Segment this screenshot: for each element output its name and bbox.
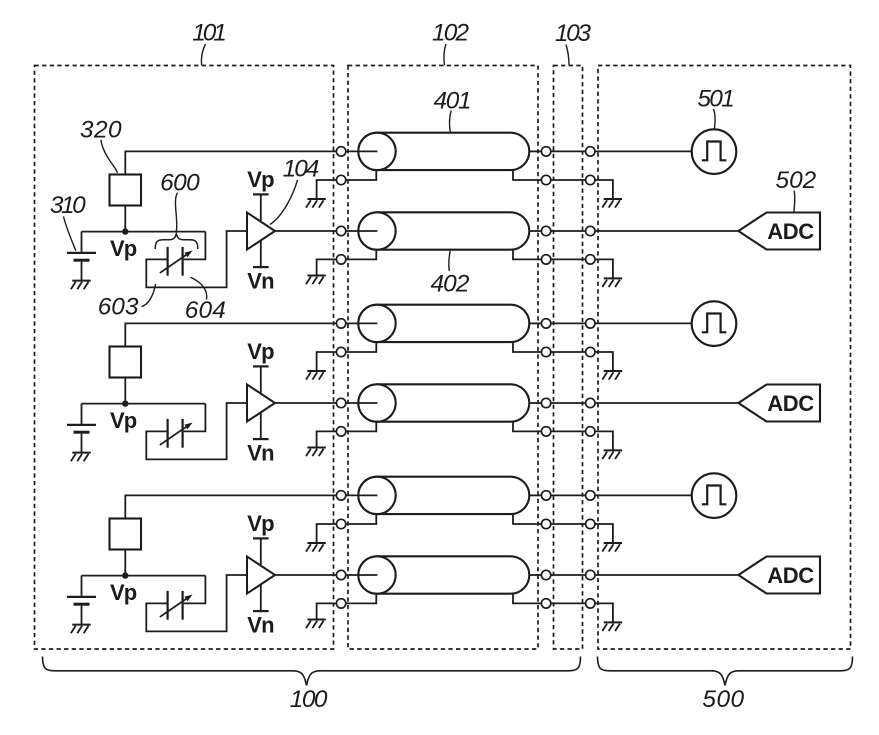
- wire connector link shield (row 2): [551, 258, 586, 260]
- wire shield to ground right (row 1): [595, 180, 613, 199]
- wire shield right (row 3): [513, 342, 541, 352]
- wire op-amp output (block 1): [275, 230, 337, 232]
- svg-text:104: 104: [283, 155, 319, 182]
- wire capacitor left plate loop to op-amp input (block 3): [146, 575, 247, 631]
- terminal circle left shield (row 1): [336, 175, 345, 184]
- wire Vp rail (block 1): [82, 231, 206, 233]
- wire box bottom to Vp node (block 2): [124, 378, 126, 404]
- op-amp Vp supply stem (block 1): [260, 194, 262, 222]
- brace 500 (span of measurement block): [598, 657, 853, 686]
- wire connector link shield (row 6): [551, 602, 586, 604]
- leader 101: [201, 44, 205, 65]
- transmission line row 5 left end circle: [358, 477, 395, 514]
- svg-text:Vn: Vn: [247, 269, 274, 294]
- capacitor right plate (block 3): [182, 591, 184, 620]
- svg-text:320: 320: [80, 116, 122, 143]
- op-amp Vn supply stem (block 3): [260, 584, 262, 611]
- wire connector link shield (row 4): [551, 430, 586, 432]
- pulse generator pulse generator row 5 circle: [692, 473, 737, 518]
- transmission line 401 body: [358, 133, 529, 170]
- dashed box 102 (transmission-line enclosure): [348, 66, 538, 650]
- terminal circle left shield (row 5): [336, 519, 345, 528]
- leader 310: [64, 216, 76, 250]
- wire capacitor left plate loop to op-amp input (block 1): [146, 231, 247, 287]
- wire line output (row 4): [529, 402, 541, 404]
- ground shield even row left (block 2): [306, 448, 326, 457]
- leader 102: [444, 44, 446, 65]
- wire shield to ground right (row 3): [595, 352, 613, 371]
- svg-text:Vp: Vp: [247, 511, 274, 536]
- terminal circle right signal (row 5): [586, 491, 595, 500]
- wire box bottom to Vp node (block 3): [124, 550, 126, 576]
- dashed box 103 (connector enclosure): [554, 66, 583, 650]
- svg-text:102: 102: [432, 20, 470, 47]
- wire shield stub even row (block 1): [317, 259, 337, 275]
- wire connector link shield (row 1): [551, 179, 586, 181]
- svg-text:Vp: Vp: [110, 408, 137, 433]
- terminal circle right signal (row 2): [586, 226, 595, 235]
- ground below battery (block 2): [71, 453, 91, 462]
- transmission line row 6 body: [358, 556, 529, 593]
- svg-text:ADC: ADC: [767, 391, 814, 416]
- terminal circle right shield (row 6): [586, 599, 595, 608]
- terminal circle mid shield (row 5): [541, 519, 550, 528]
- wire battery bottom lead (block 2): [81, 434, 83, 453]
- terminal circle left shield (row 2): [336, 255, 345, 264]
- transmission line 402 left end circle: [358, 212, 395, 249]
- wire shield right (row 4): [513, 422, 541, 432]
- wire shield stub odd row (block 2): [317, 352, 337, 371]
- capacitor 604 right plate (block 1): [182, 247, 184, 276]
- wire shield to ground right (row 4): [595, 431, 613, 450]
- wire battery bottom lead (block 3): [81, 606, 83, 625]
- wire connector link signal (row 3): [551, 322, 586, 324]
- variable-capacitor arrow (block 2): [160, 423, 193, 445]
- battery negative plate (block 3): [74, 603, 90, 606]
- wire Vp rail (block 3): [82, 575, 206, 577]
- wire shield stub odd row (block 3): [317, 524, 337, 543]
- capacitor left plate (block 3): [167, 591, 169, 620]
- battery positive plate (block 2): [67, 424, 96, 426]
- ground shield even row left (block 1): [306, 276, 326, 285]
- wire line output (row 1): [529, 150, 541, 152]
- resistor box (block 3): [110, 519, 142, 550]
- wire Vp rail (block 2): [82, 403, 206, 405]
- terminal circle mid signal (row 5): [541, 491, 550, 500]
- capacitor 603 left plate (block 1): [167, 247, 169, 276]
- op-amp 104 buffer triangle (block 1): [247, 213, 275, 250]
- terminal circle right signal (row 3): [586, 319, 595, 328]
- brace 100 (span of blocks 101-103): [43, 657, 581, 686]
- svg-text:402: 402: [431, 271, 470, 298]
- svg-text:Vp: Vp: [110, 236, 137, 261]
- wire box-320 top to signal row (block 2): [125, 323, 336, 346]
- ground shield right (row 2): [602, 278, 622, 287]
- wire feed into line (row 5): [346, 494, 378, 496]
- terminal circle mid signal (row 2): [541, 226, 550, 235]
- op-amp buffer triangle (block 3): [247, 557, 275, 594]
- wire shield right (row 2): [513, 250, 541, 260]
- pulse symbol (row 3): [702, 314, 727, 333]
- terminal circle left shield (row 3): [336, 347, 345, 356]
- wire battery top lead (block 1): [81, 232, 83, 252]
- transmission line row 4 left end circle: [358, 384, 395, 421]
- svg-text:Vp: Vp: [247, 167, 274, 192]
- wire op-amp output (block 2): [275, 402, 337, 404]
- terminal circle mid shield (row 2): [541, 255, 550, 264]
- wire line output (row 5): [529, 494, 541, 496]
- resistor box (block 2): [110, 347, 142, 378]
- wire connector link signal (row 6): [551, 574, 586, 576]
- terminal circle mid signal (row 4): [541, 398, 550, 407]
- wire connector link signal (row 1): [551, 150, 586, 152]
- terminal circle mid signal (row 1): [541, 147, 550, 156]
- wire connector link signal (row 4): [551, 402, 586, 404]
- terminal circle left shield (row 6): [336, 599, 345, 608]
- leader 502: [793, 191, 796, 212]
- battery positive plate (block 3): [67, 596, 96, 598]
- wire to pulse generator (row 5): [595, 494, 692, 496]
- node Vp junction dot (block 2): [122, 400, 128, 406]
- svg-text:Vp: Vp: [110, 580, 137, 605]
- ground shield right (row 5): [602, 543, 622, 552]
- battery negative plate (block 1): [74, 259, 90, 262]
- terminal circle left signal (row 4): [336, 398, 345, 407]
- leader 600: [175, 193, 177, 232]
- variable-capacitor arrow (block 1): [160, 251, 193, 273]
- leader 103: [566, 45, 569, 66]
- wire capacitor left plate loop to op-amp input (block 2): [146, 403, 247, 459]
- pulse generator 501 circle: [692, 129, 737, 174]
- terminal circle right shield (row 4): [586, 427, 595, 436]
- terminal circle right shield (row 5): [586, 519, 595, 528]
- terminal circle right signal (row 4): [586, 398, 595, 407]
- op-amp Vn supply bar (block 3): [253, 610, 269, 612]
- node Vp junction dot (block 3): [122, 572, 128, 578]
- wire to ADC (row 6): [595, 574, 739, 576]
- wire shield left (row 4): [346, 422, 377, 432]
- wire shield stub even row (block 2): [317, 431, 337, 447]
- pulse generator pulse generator row 3 circle: [692, 301, 737, 346]
- terminal circle right signal (row 6): [586, 570, 595, 579]
- ADC 502 pentagon: [738, 213, 820, 250]
- wire op-amp output (block 3): [275, 574, 337, 576]
- transmission line row 3 left end circle: [358, 305, 395, 342]
- op-amp Vn supply bar (block 2): [253, 438, 269, 440]
- wire shield left (row 5): [346, 514, 377, 524]
- svg-text:100: 100: [290, 686, 328, 713]
- transmission line 401 left end circle: [358, 133, 395, 170]
- wire line output (row 2): [529, 230, 541, 232]
- svg-text:604: 604: [185, 297, 226, 324]
- wire line output (row 3): [529, 322, 541, 324]
- over-brace of capacitor 600: [155, 234, 198, 249]
- battery negative plate (block 2): [74, 431, 90, 434]
- wire to ADC (row 2): [595, 230, 739, 232]
- op-amp Vp supply bar (block 2): [253, 365, 269, 367]
- battery 310 positive plate (block 1): [67, 252, 96, 254]
- terminal circle mid shield (row 6): [541, 599, 550, 608]
- wire connector link shield (row 5): [551, 523, 586, 525]
- dashed box 101 (driver block enclosure): [35, 66, 334, 650]
- ADC ADC row 4 pentagon: [738, 385, 820, 422]
- variable-capacitor arrow (block 3): [160, 595, 193, 617]
- svg-text:103: 103: [555, 20, 592, 47]
- op-amp Vp supply stem (block 2): [260, 366, 262, 394]
- svg-text:502: 502: [776, 167, 817, 194]
- ground below battery (block 1): [71, 281, 91, 290]
- wire to pulse generator (row 3): [595, 322, 692, 324]
- wire box-320 top to signal row (block 1): [125, 151, 336, 174]
- wire shield right (row 5): [513, 514, 541, 524]
- ADC ADC row 6 pentagon: [738, 557, 820, 594]
- terminal circle left signal (row 2): [336, 226, 345, 235]
- ground shield right (row 3): [602, 371, 622, 380]
- wire shield right (row 6): [513, 594, 541, 604]
- pulse symbol (row 5): [702, 486, 727, 505]
- transmission line row 3 body: [358, 305, 529, 342]
- svg-text:310: 310: [50, 192, 86, 219]
- terminal circle right shield (row 3): [586, 347, 595, 356]
- op-amp buffer triangle (block 2): [247, 385, 275, 422]
- wire battery top lead (block 3): [81, 576, 83, 596]
- terminal circle mid shield (row 4): [541, 427, 550, 436]
- terminal circle mid signal (row 3): [541, 319, 550, 328]
- ground shield odd row left (block 1): [306, 199, 326, 208]
- wire feed into line (row 2): [346, 230, 378, 232]
- terminal circle right shield (row 2): [586, 255, 595, 264]
- wire shield right (row 1): [513, 170, 541, 180]
- leader 604: [191, 277, 207, 299]
- terminal circle left shield (row 4): [336, 427, 345, 436]
- ground shield even row left (block 3): [306, 620, 326, 629]
- wire shield left (row 3): [346, 342, 377, 352]
- op-amp Vp supply stem (block 3): [260, 538, 262, 566]
- wire box-320 top to signal row (block 3): [125, 495, 336, 518]
- wire battery top lead (block 2): [81, 404, 83, 424]
- svg-text:101: 101: [192, 20, 225, 47]
- transmission line row 4 body: [358, 384, 529, 421]
- ground below battery (block 3): [71, 625, 91, 634]
- svg-text:500: 500: [702, 686, 744, 713]
- wire feed into line (row 1): [346, 150, 378, 152]
- leader 401: [450, 111, 452, 133]
- terminal circle left signal (row 5): [336, 491, 345, 500]
- terminal circle mid shield (row 3): [541, 347, 550, 356]
- wire Vp rail down to capacitor (block 1): [184, 232, 206, 260]
- svg-text:401: 401: [434, 87, 471, 114]
- wire shield to ground right (row 6): [595, 603, 613, 622]
- transmission line row 5 body: [358, 477, 529, 514]
- node Vp junction dot (block 1): [122, 228, 128, 234]
- dashed box 500 enclosure (measurement block): [598, 66, 851, 650]
- wire connector link signal (row 5): [551, 494, 586, 496]
- ground shield right (row 6): [602, 622, 622, 631]
- wire shield left (row 2): [346, 250, 377, 260]
- terminal circle mid signal (row 6): [541, 570, 550, 579]
- terminal circle mid shield (row 1): [541, 175, 550, 184]
- leader 603: [141, 284, 155, 307]
- wire feed into line (row 4): [346, 402, 378, 404]
- svg-text:501: 501: [697, 85, 733, 112]
- svg-text:Vp: Vp: [247, 339, 274, 364]
- capacitor right plate (block 2): [182, 419, 184, 448]
- svg-text:ADC: ADC: [767, 219, 814, 244]
- leader 320: [101, 140, 118, 173]
- terminal circle left signal (row 6): [336, 570, 345, 579]
- leader 402: [449, 251, 450, 271]
- ground shield odd row left (block 2): [306, 371, 326, 380]
- pulse symbol (row 1): [702, 142, 727, 161]
- svg-text:Vn: Vn: [247, 441, 274, 466]
- capacitor left plate (block 2): [167, 419, 169, 448]
- transmission line row 6 left end circle: [358, 556, 395, 593]
- op-amp Vn supply stem (block 1): [260, 240, 262, 267]
- wire line output (row 6): [529, 574, 541, 576]
- wire box bottom to Vp node (block 1): [124, 206, 126, 232]
- wire shield left (row 6): [346, 594, 377, 604]
- wire connector link signal (row 2): [551, 230, 586, 232]
- svg-text:Vn: Vn: [247, 613, 274, 638]
- wire shield to ground right (row 2): [595, 259, 613, 278]
- wire shield stub even row (block 3): [317, 603, 337, 619]
- terminal circle right signal (row 1): [586, 147, 595, 156]
- op-amp Vp supply bar (block 3): [253, 537, 269, 539]
- terminal circle left signal (row 1): [336, 147, 345, 156]
- terminal circle right shield (row 1): [586, 175, 595, 184]
- wire battery bottom lead (block 1): [81, 262, 83, 281]
- wire Vp rail down to capacitor (block 3): [184, 576, 206, 604]
- svg-text:ADC: ADC: [767, 563, 814, 588]
- wire feed into line (row 6): [346, 574, 378, 576]
- wire Vp rail down to capacitor (block 2): [184, 404, 206, 432]
- op-amp Vp supply bar (block 1): [253, 193, 269, 195]
- wire to pulse generator (row 1): [595, 150, 692, 152]
- ground shield right (row 4): [602, 450, 622, 459]
- wire feed into line (row 3): [346, 322, 378, 324]
- wire shield left (row 1): [346, 170, 377, 180]
- op-amp Vn supply stem (block 2): [260, 412, 262, 439]
- transmission line 402 body: [358, 212, 529, 249]
- leader 104: [270, 180, 298, 225]
- svg-text:600: 600: [160, 169, 200, 196]
- wire to ADC (row 4): [595, 402, 739, 404]
- op-amp Vn supply bar (block 1): [253, 266, 269, 268]
- leader 501: [714, 109, 716, 129]
- wire shield to ground right (row 5): [595, 524, 613, 543]
- wire connector link shield (row 3): [551, 351, 586, 353]
- resistor box 320 (block 1): [110, 175, 142, 206]
- terminal circle left signal (row 3): [336, 319, 345, 328]
- svg-text:603: 603: [98, 294, 139, 321]
- ground shield right (row 1): [602, 199, 622, 208]
- wire shield stub odd row (block 1): [317, 180, 337, 199]
- ground shield odd row left (block 3): [306, 543, 326, 552]
